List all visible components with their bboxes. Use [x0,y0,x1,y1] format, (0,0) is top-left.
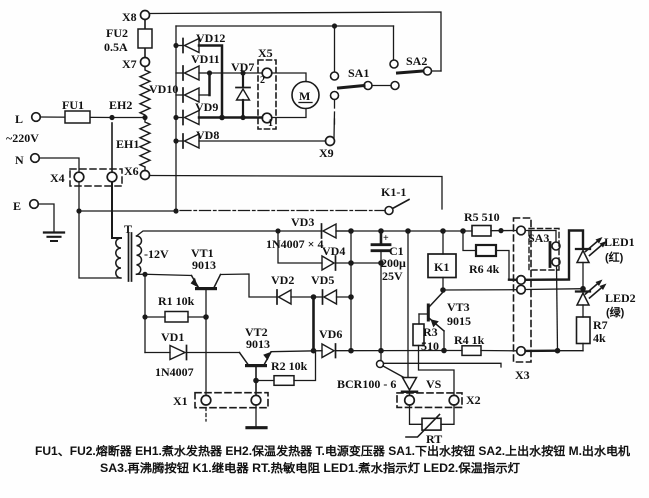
wire VT1 base down to X1 [205,290,207,395]
bold wire X3 pin4 row [526,350,558,353]
svg-text:R5 510: R5 510 [464,210,500,224]
svg-text:FU1、FU2.熔断器 EH1.煮水发热器 EH2.保温发热: FU1、FU2.熔断器 EH1.煮水发热器 EH2.保温发热器 T.电源变压器 … [35,444,631,458]
svg-text:LED1: LED1 [604,235,635,249]
diode VD12 [176,45,183,47]
negative rail row [337,350,445,352]
wire N to X4 [40,158,80,172]
svg-text:SA1: SA1 [348,66,369,80]
terminal X6 [141,171,150,180]
svg-text:VD8: VD8 [196,128,219,142]
svg-text:X4: X4 [50,171,65,185]
wire -12V vertical [144,274,146,352]
connector X4 [70,169,122,186]
wire VD10-VD11 anode bold riser [208,73,211,95]
wire bus top row to SA1/SA2 [176,25,394,27]
svg-text:RT: RT [426,432,442,446]
svg-text:X8: X8 [122,10,137,24]
svg-text:1N4007 × 4: 1N4007 × 4 [266,237,324,251]
svg-text:FU1: FU1 [62,98,84,112]
svg-text:SA2: SA2 [406,54,427,68]
resistor R7 4k [577,317,591,344]
wire VD12 anode bold to VD9 row [199,46,222,118]
heater EH2 (zigzag) [140,67,150,119]
motor M [272,73,306,82]
wire secondary bottom (-12V rail) [137,273,146,275]
wire VD9 row bold [199,116,262,119]
wire VT1 collector to VD2 [221,274,277,297]
svg-text:K1-1: K1-1 [381,185,406,199]
wire X6 row to K1-1 contact [150,176,443,210]
svg-text:VD2: VD2 [271,273,294,287]
wire L row to heater junction [112,117,145,119]
svg-text:~220V: ~220V [6,131,39,145]
svg-text:+: + [383,233,389,244]
svg-text:2: 2 [260,75,265,86]
diode VD4 branch [278,231,322,263]
connector X3 (4 pins) [514,218,532,362]
svg-text:BCR100 - 6: BCR100 - 6 [337,377,396,391]
switch SA2 [390,60,398,68]
bold wire R6/X3 to LED1 [509,279,517,281]
relay coil K1 [442,231,444,254]
svg-text:(红): (红) [605,250,624,264]
diode VD9 [176,117,183,119]
wire K1/VT3 node to X3 pin and LEDs [443,289,517,291]
svg-text:1N4007: 1N4007 [155,365,194,379]
terminal X7 [141,58,150,67]
svg-text:FU2: FU2 [106,26,128,40]
wire SA3 bottom to negative row [557,266,558,351]
svg-text:N: N [15,153,24,167]
svg-text:E: E [13,199,21,213]
terminal X8 [141,11,150,20]
bold link VD2/VD5 node down to VT2 collector row [312,297,315,351]
svg-text:1: 1 [268,118,273,129]
svg-text:VS: VS [426,377,442,391]
svg-text:R6 4k: R6 4k [469,262,500,276]
wire X4 right leg (L) down to transformer primary top [111,123,113,172]
diode VD7 [242,73,244,87]
svg-text:(绿): (绿) [606,305,625,319]
svg-text:X6: X6 [124,164,139,178]
svg-text:X7: X7 [122,57,137,71]
svg-text:VD4: VD4 [322,244,345,258]
svg-text:L: L [15,112,23,126]
svg-text:25V: 25V [382,269,403,283]
svg-text:VD11: VD11 [191,52,220,66]
svg-text:R2 10k: R2 10k [271,359,308,373]
svg-text:VD10: VD10 [149,82,178,96]
svg-text:X2: X2 [466,393,481,407]
svg-text:SA3.再沸腾按钮 K1.继电器 RT.热敏电阻 LED1.: SA3.再沸腾按钮 K1.继电器 RT.热敏电阻 LED1.煮水指示灯 LED2… [100,461,521,475]
wire drop to SA2 [393,26,395,60]
thermistor RT [410,405,423,424]
terminal N [31,154,40,163]
svg-text:X1: X1 [173,394,188,408]
wire N-line link to diode bus [79,210,176,212]
node L-EH junction [109,115,114,120]
terminal L [32,113,41,122]
wire secondary top to rail [137,231,322,236]
svg-text:R1 10k: R1 10k [158,294,195,308]
svg-text:X5: X5 [258,46,273,60]
wire VD11 junction row to X5 [210,72,263,74]
svg-text:VT3: VT3 [447,300,470,314]
svg-text:VD9: VD9 [195,100,218,114]
svg-text:LED2: LED2 [605,291,636,305]
wire top rail from X8 to SA2 right [150,12,442,71]
svg-text:X9: X9 [319,146,334,160]
wire VT2 base down to X1 [255,367,257,395]
connector X5 [258,60,276,129]
rectifier bus vertical [350,231,352,351]
svg-text:VD5: VD5 [311,273,334,287]
wire X4 left leg down to transformer primary bottom [79,182,120,278]
svg-text:R7: R7 [593,318,608,332]
diode VD8 [176,140,183,142]
ground [44,231,64,233]
capacitor C1 200u 25V [380,231,383,244]
diode VD11 [176,72,183,74]
svg-text:R4 1k: R4 1k [454,333,485,347]
svg-text:VD1: VD1 [161,330,184,344]
connector X1 [195,393,268,408]
main + rail [337,230,472,232]
svg-text:VD3: VD3 [291,215,314,229]
svg-text:9013: 9013 [192,258,216,272]
wire E to ground [39,204,55,232]
svg-text:EH1: EH1 [116,137,139,151]
connector X2 [397,393,462,408]
fuse FU2 0.5A [144,20,146,58]
svg-text:510: 510 [421,339,439,353]
svg-text:-12V: -12V [144,247,169,261]
svg-text:SA3: SA3 [528,231,549,245]
wire R3 bottom to X2 right [419,346,455,396]
fuse FU1 [41,116,113,119]
svg-text:M: M [299,89,310,103]
wire VD8 row to X9 [199,140,326,142]
svg-text:EH2: EH2 [109,98,132,112]
svg-text:R3: R3 [423,325,438,339]
svg-text:9013: 9013 [246,337,270,351]
wire X3 top pin to SA3 [526,231,557,243]
thyristor gate with terminal circle [377,361,384,368]
water probe leads below X1 [205,408,207,422]
wire drop to SA1 [334,26,336,72]
heater EH1 (zigzag) [140,118,150,171]
svg-text:200μ: 200μ [381,256,406,270]
wire VT2 collector row [271,351,322,352]
diode bus vertical [175,26,177,211]
svg-text:0.5A: 0.5A [104,40,128,54]
svg-text:VD12: VD12 [196,31,225,45]
svg-text:9015: 9015 [447,314,471,328]
terminal X9 [326,137,335,146]
svg-text:4k: 4k [593,331,606,345]
switch SA3 (in dashed box) [529,229,559,271]
thyristor VS anode line [407,231,409,377]
svg-text:X3: X3 [515,368,530,382]
diode VD10 [176,94,183,96]
wire X9 to SA1 lower contact [333,112,336,138]
svg-text:K1: K1 [434,260,449,274]
terminal E [30,200,39,209]
resistor R3 510 [418,314,420,324]
switch SA1 [331,72,339,80]
wire -12V to VT1 emitter [145,274,192,275]
svg-text:VD6: VD6 [319,327,342,341]
